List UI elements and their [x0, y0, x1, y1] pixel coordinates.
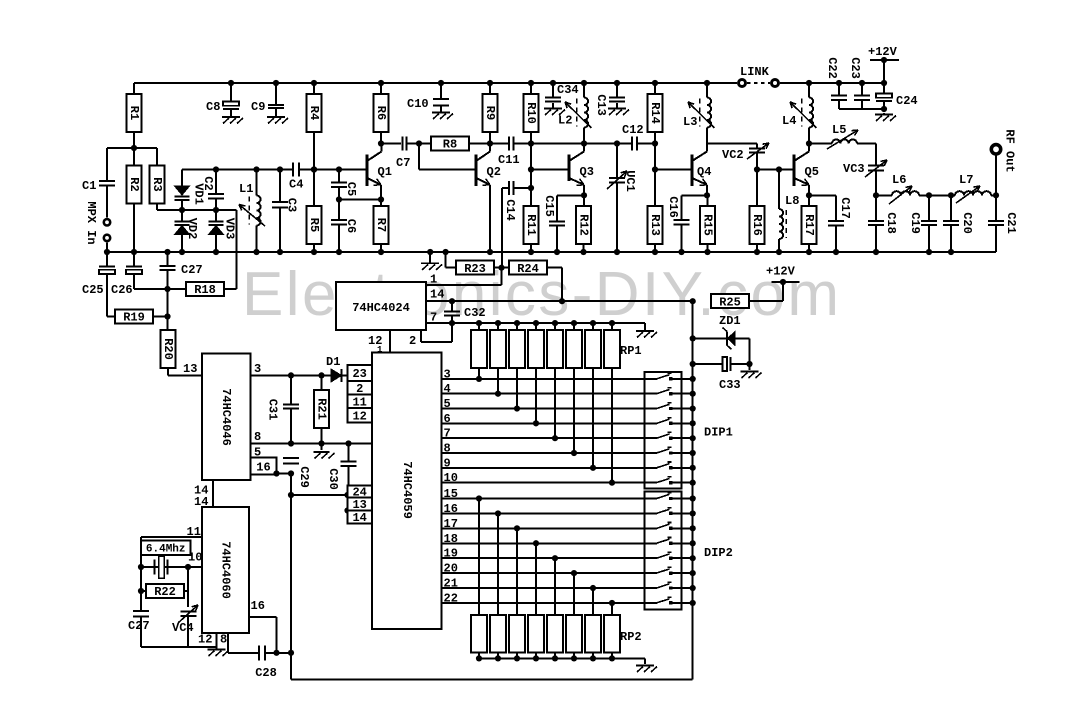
svg-text:C28: C28 — [255, 666, 277, 680]
svg-text:Q3: Q3 — [580, 165, 594, 179]
svg-text:C15: C15 — [542, 195, 556, 217]
svg-text:74HC4060: 74HC4060 — [219, 541, 233, 599]
svg-text:Q1: Q1 — [378, 165, 392, 179]
svg-text:18: 18 — [444, 532, 458, 546]
svg-text:C17: C17 — [838, 197, 852, 219]
svg-text:C19: C19 — [908, 212, 922, 234]
svg-text:VC3: VC3 — [843, 162, 865, 176]
svg-text:C4: C4 — [289, 178, 303, 192]
svg-text:13: 13 — [183, 362, 197, 376]
svg-text:R9: R9 — [483, 106, 497, 120]
svg-text:6.4Mhz: 6.4Mhz — [146, 544, 186, 556]
svg-text:C31: C31 — [266, 399, 280, 421]
svg-text:LINK: LINK — [740, 65, 770, 79]
svg-text:C6: C6 — [344, 219, 358, 233]
svg-text:R8: R8 — [443, 138, 457, 152]
svg-text:C1: C1 — [82, 179, 96, 193]
svg-text:R6: R6 — [374, 106, 388, 120]
svg-text:C10: C10 — [407, 97, 429, 111]
svg-text:R24: R24 — [517, 262, 539, 276]
svg-text:C9: C9 — [251, 100, 265, 114]
svg-text:R14: R14 — [648, 102, 662, 124]
svg-text:R3: R3 — [150, 177, 164, 191]
svg-text:L1: L1 — [239, 182, 253, 196]
svg-text:L6: L6 — [892, 173, 906, 187]
svg-text:74HC4059: 74HC4059 — [400, 461, 414, 519]
svg-text:C24: C24 — [896, 94, 918, 108]
svg-text:L2: L2 — [558, 114, 572, 128]
svg-text:16: 16 — [251, 599, 265, 613]
svg-text:14: 14 — [194, 495, 208, 509]
svg-text:21: 21 — [444, 577, 458, 591]
svg-text:16: 16 — [444, 502, 458, 516]
svg-text:UC1: UC1 — [623, 170, 637, 192]
svg-text:RP2: RP2 — [620, 630, 642, 644]
svg-text:RF Out: RF Out — [1003, 129, 1017, 172]
svg-text:9: 9 — [444, 456, 451, 470]
svg-text:5: 5 — [444, 397, 451, 411]
svg-text:C3: C3 — [285, 198, 299, 212]
svg-text:R21: R21 — [315, 398, 329, 420]
svg-text:VD3: VD3 — [223, 218, 237, 240]
svg-text:19: 19 — [444, 547, 458, 561]
svg-text:17: 17 — [444, 517, 458, 531]
svg-text:VC2: VC2 — [722, 148, 744, 162]
svg-text:3: 3 — [444, 367, 451, 381]
svg-text:Q2: Q2 — [487, 165, 501, 179]
svg-text:23: 23 — [352, 367, 366, 381]
svg-text:74HC4046: 74HC4046 — [219, 388, 233, 446]
svg-text:R11: R11 — [524, 214, 538, 236]
svg-text:R13: R13 — [648, 214, 662, 236]
svg-text:R1: R1 — [127, 106, 141, 120]
svg-text:R4: R4 — [307, 106, 321, 120]
svg-text:C27: C27 — [128, 619, 150, 633]
svg-text:6: 6 — [444, 412, 451, 426]
svg-text:74HC4024: 74HC4024 — [352, 301, 410, 315]
svg-text:+12V: +12V — [868, 45, 898, 59]
svg-text:L5: L5 — [832, 123, 846, 137]
svg-text:12: 12 — [352, 409, 366, 423]
svg-text:C34: C34 — [557, 83, 579, 97]
svg-text:DIP1: DIP1 — [704, 426, 733, 440]
svg-text:C14: C14 — [503, 199, 517, 221]
svg-text:+12V: +12V — [766, 265, 796, 279]
svg-text:C8: C8 — [206, 100, 220, 114]
svg-text:8: 8 — [220, 633, 227, 647]
svg-text:L7: L7 — [959, 173, 973, 187]
svg-text:15: 15 — [444, 487, 458, 501]
svg-text:C25: C25 — [82, 283, 104, 297]
svg-text:C27: C27 — [181, 263, 203, 277]
svg-text:20: 20 — [444, 562, 458, 576]
svg-text:Q5: Q5 — [805, 165, 819, 179]
svg-text:R20: R20 — [161, 338, 175, 360]
svg-text:R5: R5 — [307, 218, 321, 232]
svg-text:C12: C12 — [622, 123, 644, 137]
svg-text:2: 2 — [409, 334, 416, 348]
svg-text:VD2: VD2 — [185, 218, 199, 240]
svg-text:R17: R17 — [802, 214, 816, 236]
svg-text:VC4: VC4 — [172, 621, 194, 635]
svg-text:14: 14 — [430, 287, 444, 301]
svg-text:3: 3 — [254, 362, 261, 376]
svg-text:C32: C32 — [464, 306, 486, 320]
svg-text:8: 8 — [444, 442, 451, 456]
svg-text:14: 14 — [352, 511, 366, 525]
svg-text:C21: C21 — [1004, 212, 1018, 234]
svg-text:R10: R10 — [524, 102, 538, 124]
svg-text:C7: C7 — [396, 156, 410, 170]
svg-text:C26: C26 — [111, 283, 133, 297]
svg-text:C5: C5 — [344, 182, 358, 196]
svg-text:D1: D1 — [326, 355, 340, 369]
svg-text:C22: C22 — [825, 57, 839, 79]
svg-text:C18: C18 — [884, 212, 898, 234]
svg-text:12: 12 — [198, 633, 212, 647]
svg-text:L4: L4 — [782, 114, 796, 128]
svg-text:4: 4 — [444, 382, 451, 396]
svg-text:Q4: Q4 — [697, 165, 711, 179]
svg-text:R19: R19 — [123, 311, 145, 325]
svg-text:MPX In: MPX In — [84, 201, 98, 244]
svg-text:C29: C29 — [297, 466, 311, 488]
svg-text:C2: C2 — [201, 176, 215, 190]
svg-text:C23: C23 — [848, 57, 862, 79]
svg-text:8: 8 — [254, 430, 261, 444]
svg-text:R18: R18 — [194, 283, 216, 297]
svg-text:C30: C30 — [326, 468, 340, 490]
svg-text:C11: C11 — [498, 153, 520, 167]
svg-text:C16: C16 — [666, 196, 680, 218]
svg-text:R16: R16 — [750, 214, 764, 236]
svg-text:R22: R22 — [154, 585, 176, 599]
svg-text:10: 10 — [444, 471, 458, 485]
svg-text:DIP2: DIP2 — [704, 546, 733, 560]
svg-text:16: 16 — [256, 461, 270, 475]
svg-text:C13: C13 — [594, 94, 608, 116]
svg-text:R25: R25 — [719, 295, 741, 309]
svg-text:R15: R15 — [701, 214, 715, 236]
svg-text:R23: R23 — [464, 262, 486, 276]
svg-text:R2: R2 — [127, 177, 141, 191]
svg-text:7: 7 — [444, 427, 451, 441]
svg-text:R7: R7 — [374, 218, 388, 232]
svg-text:22: 22 — [444, 591, 458, 605]
svg-text:L8: L8 — [785, 194, 799, 208]
svg-text:R12: R12 — [577, 214, 591, 236]
svg-text:L3: L3 — [683, 115, 697, 129]
svg-text:ZD1: ZD1 — [719, 314, 741, 328]
svg-text:C33: C33 — [719, 378, 741, 392]
svg-text:C20: C20 — [960, 212, 974, 234]
svg-text:RP1: RP1 — [620, 344, 642, 358]
